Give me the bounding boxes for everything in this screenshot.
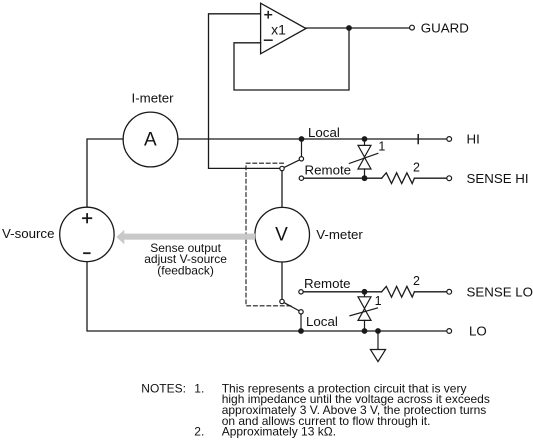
svg-text:1.: 1. (194, 381, 204, 395)
wire feedback loop to - input (234, 28, 349, 90)
terminal GUARD (410, 25, 415, 30)
terminal SENSE LO (447, 289, 452, 294)
svg-text:1: 1 (375, 294, 382, 308)
svg-text:Remote: Remote (304, 276, 351, 291)
I-meter A1 (123, 112, 178, 167)
dashed box remote sense path (246, 163, 291, 306)
svg-text:NOTES:: NOTES: (141, 381, 186, 395)
svg-text:HI: HI (467, 132, 480, 147)
notes (141, 381, 490, 438)
resistor R2 (sense HI) (365, 160, 447, 183)
svg-text:V-source: V-source (2, 226, 54, 241)
svg-text:Local: Local (306, 314, 338, 329)
link tick on HI line (417, 135, 419, 144)
wire V-meter bottom to lower pivot (281, 262, 283, 299)
svg-text:2: 2 (413, 274, 420, 288)
wire remote to sense-hi node (304, 177, 365, 179)
wire op-amp output to GUARD (306, 27, 410, 29)
op-amp U1 (261, 3, 306, 54)
svg-text:2: 2 (413, 160, 420, 174)
svg-text:Approximately 13 kΩ.: Approximately 13 kΩ. (222, 425, 336, 439)
svg-text:SENSE LO: SENSE LO (467, 284, 533, 299)
svg-text:Remote: Remote (305, 162, 352, 177)
V-meter M1 (255, 207, 310, 262)
svg-text:Local: Local (308, 125, 340, 140)
svg-text:V-meter: V-meter (316, 227, 363, 242)
terminal SENSE HI (447, 176, 452, 181)
svg-text:I-meter: I-meter (132, 91, 175, 106)
svg-text:A: A (144, 129, 157, 150)
zener pair D2 (LO protection) (350, 289, 382, 331)
wire HI line (178, 138, 447, 140)
svg-text:x1: x1 (271, 21, 286, 37)
switch S2 (LO local/remote) (280, 299, 303, 331)
wire LO line from V-source (87, 262, 447, 331)
terminal-circle Remote (lower) (299, 290, 303, 294)
wire from op-amp + input down to V-meter sense node (209, 14, 280, 169)
svg-text:LO: LO (469, 324, 487, 339)
node local (lower) (298, 328, 304, 334)
terminal HI (447, 137, 452, 142)
svg-text:SENSE HI: SENSE HI (467, 171, 529, 186)
switch S1 (HI local/remote) (280, 139, 304, 171)
resistor R2 (sense LO) (365, 274, 447, 297)
terminal-circle Remote (upper) (299, 176, 303, 180)
terminal LO (447, 329, 452, 334)
node Local (upper) (299, 136, 305, 142)
text feedback annotation (144, 241, 227, 278)
svg-text:V: V (275, 225, 288, 246)
wire switch pivot to V-meter top (281, 171, 283, 208)
zener pair D1 (HI protection) (349, 136, 385, 181)
node zener-lo (362, 328, 368, 334)
V-source VS1 (60, 207, 114, 261)
gray feedback arrow (116, 230, 255, 245)
node output junction (346, 25, 352, 31)
svg-text:2.: 2. (194, 425, 204, 439)
svg-text:1: 1 (378, 139, 385, 153)
svg-text:GUARD: GUARD (421, 20, 469, 35)
ground (370, 331, 385, 362)
wire remote to sense-lo node (303, 291, 364, 293)
svg-text:(feedback): (feedback) (157, 264, 214, 278)
wire V-source top to I-meter (87, 139, 123, 208)
node ground tap (375, 328, 381, 334)
